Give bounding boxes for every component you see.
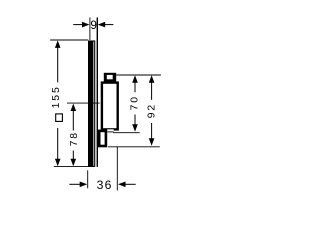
outlet notch in body bottom [107,129,114,131]
svg-text:92: 92 [146,103,157,118]
dim 70 line lower segment [134,115,136,126]
dim 36 left extension line [87,170,89,188]
dim 155 top extension line [50,39,88,41]
dim 9 right arrow [98,22,106,28]
knob inner recess [107,75,113,79]
dim 92 line upper segment [151,82,153,100]
knob on body top [104,73,116,83]
dim 9 left arrow [82,22,90,28]
bottom shared extension line [54,166,88,168]
dim 70 top arrow [132,75,138,83]
square symbol [56,114,63,122]
dim 70 bottom arrow [132,124,138,132]
dim 78 bottom arrow [71,159,77,167]
dim 78 line lower segment [72,151,74,161]
svg-text:78: 78 [69,131,80,146]
below-body part [99,131,106,146]
dim 155 line upper segment [57,47,59,83]
svg-text:36: 36 [97,178,113,192]
dim 9 right tail [104,24,113,26]
dim 78 line upper segment [72,110,74,130]
body U1 [102,83,118,130]
dim 92 line lower segment [151,123,153,139]
dim 9 left tail [73,24,83,26]
dim 36 right tail [125,183,136,185]
dim 36 right arrow [118,182,126,188]
dim 78 top arrow [71,104,77,112]
dim 78 top extension line [67,102,100,104]
dim 92 top arrow [149,75,155,83]
dim 155 line lower segment [57,128,59,160]
svg-text:9: 9 [90,18,97,32]
dim 92 bottom arrow [149,138,155,146]
plate outline [89,41,95,166]
dim 92 bottom extension line [108,146,160,148]
dim 155 top arrow [55,40,61,48]
dim 36 right extension line [116,147,118,191]
dim 155 bottom arrow [55,159,61,167]
dim 36 left arrow [80,182,88,188]
dim 70 bottom extension line [113,132,140,134]
knob top extension line [116,74,161,76]
outlet notch underline [107,131,114,133]
dim 36 left tail [69,183,80,185]
dim 70 line upper segment [134,82,136,92]
plate front face [88,41,93,167]
dim 9 left extension line [89,18,91,41]
svg-text:155: 155 [51,85,62,108]
wall line [96,18,98,167]
svg-text:70: 70 [130,95,141,110]
